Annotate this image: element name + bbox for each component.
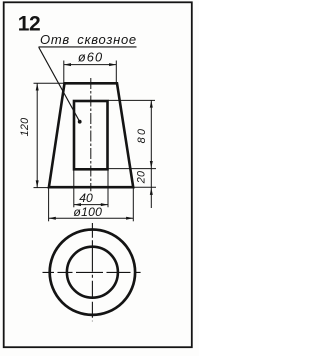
vertical axis centerline front view [90, 78, 92, 191]
dimension Ф100 arrow right [126, 217, 133, 220]
dimension 80 top extension line [108, 99, 155, 101]
svg-text:ø60: ø60 [78, 49, 103, 64]
svg-text:40: 40 [79, 191, 93, 205]
dimension Ф60 arrow right [109, 63, 116, 66]
svg-text:120: 120 [19, 118, 31, 137]
svg-text:ø100: ø100 [73, 205, 102, 219]
dimension Ф60 arrow left [64, 63, 71, 66]
dimension line 80/20 vertical [150, 100, 152, 208]
dimension 120 bottom extension line [34, 187, 49, 189]
border frame [4, 2, 192, 347]
dimension Ф60 extension line left [63, 61, 65, 84]
dimension Ф100 extension line right [132, 187, 134, 221]
leader dot [78, 120, 82, 124]
dimension Ф100 extension line left [48, 188, 50, 221]
dimension 40 extension line left [73, 170, 75, 207]
cone frustum outline [49, 83, 133, 187]
dimension 40 arrow right [101, 203, 108, 206]
dimension 120 line [36, 83, 38, 187]
horizontal centerline top view [43, 271, 141, 273]
top view inner circle Ф60 [67, 247, 118, 298]
dimension Ф100 arrow left [49, 217, 56, 220]
svg-text:20: 20 [135, 171, 147, 184]
dimension 120 arrow bottom [36, 180, 39, 187]
svg-text:80: 80 [136, 127, 148, 144]
dimension 20 bottom extension line [134, 186, 157, 188]
svg-text:12: 12 [18, 13, 40, 36]
dimension 120 top extension line [34, 82, 65, 84]
dimension 120 arrow top [36, 83, 39, 90]
dimension Ф60 extension line right [115, 61, 117, 84]
svg-text:Отв сквозное: Отв сквозное [40, 32, 137, 47]
dimension Ф100 line [49, 217, 134, 219]
dimension Ф60 line [64, 64, 117, 66]
dimension 40 arrow left [74, 203, 81, 206]
top view outer circle Ф100 [50, 230, 135, 315]
vertical centerline top view [91, 223, 93, 321]
dimension 80 arrow top [150, 100, 153, 107]
dimension 80 bottom extension line [108, 168, 156, 170]
dimension 40 line [74, 204, 108, 206]
dimension 20 arrow bottom [150, 188, 153, 195]
dimension 80/20 arrow middle [150, 161, 153, 168]
leader line [39, 47, 80, 122]
note underline [39, 46, 137, 48]
hole rectangle [74, 101, 108, 169]
dimension 40 extension line right [107, 170, 109, 207]
